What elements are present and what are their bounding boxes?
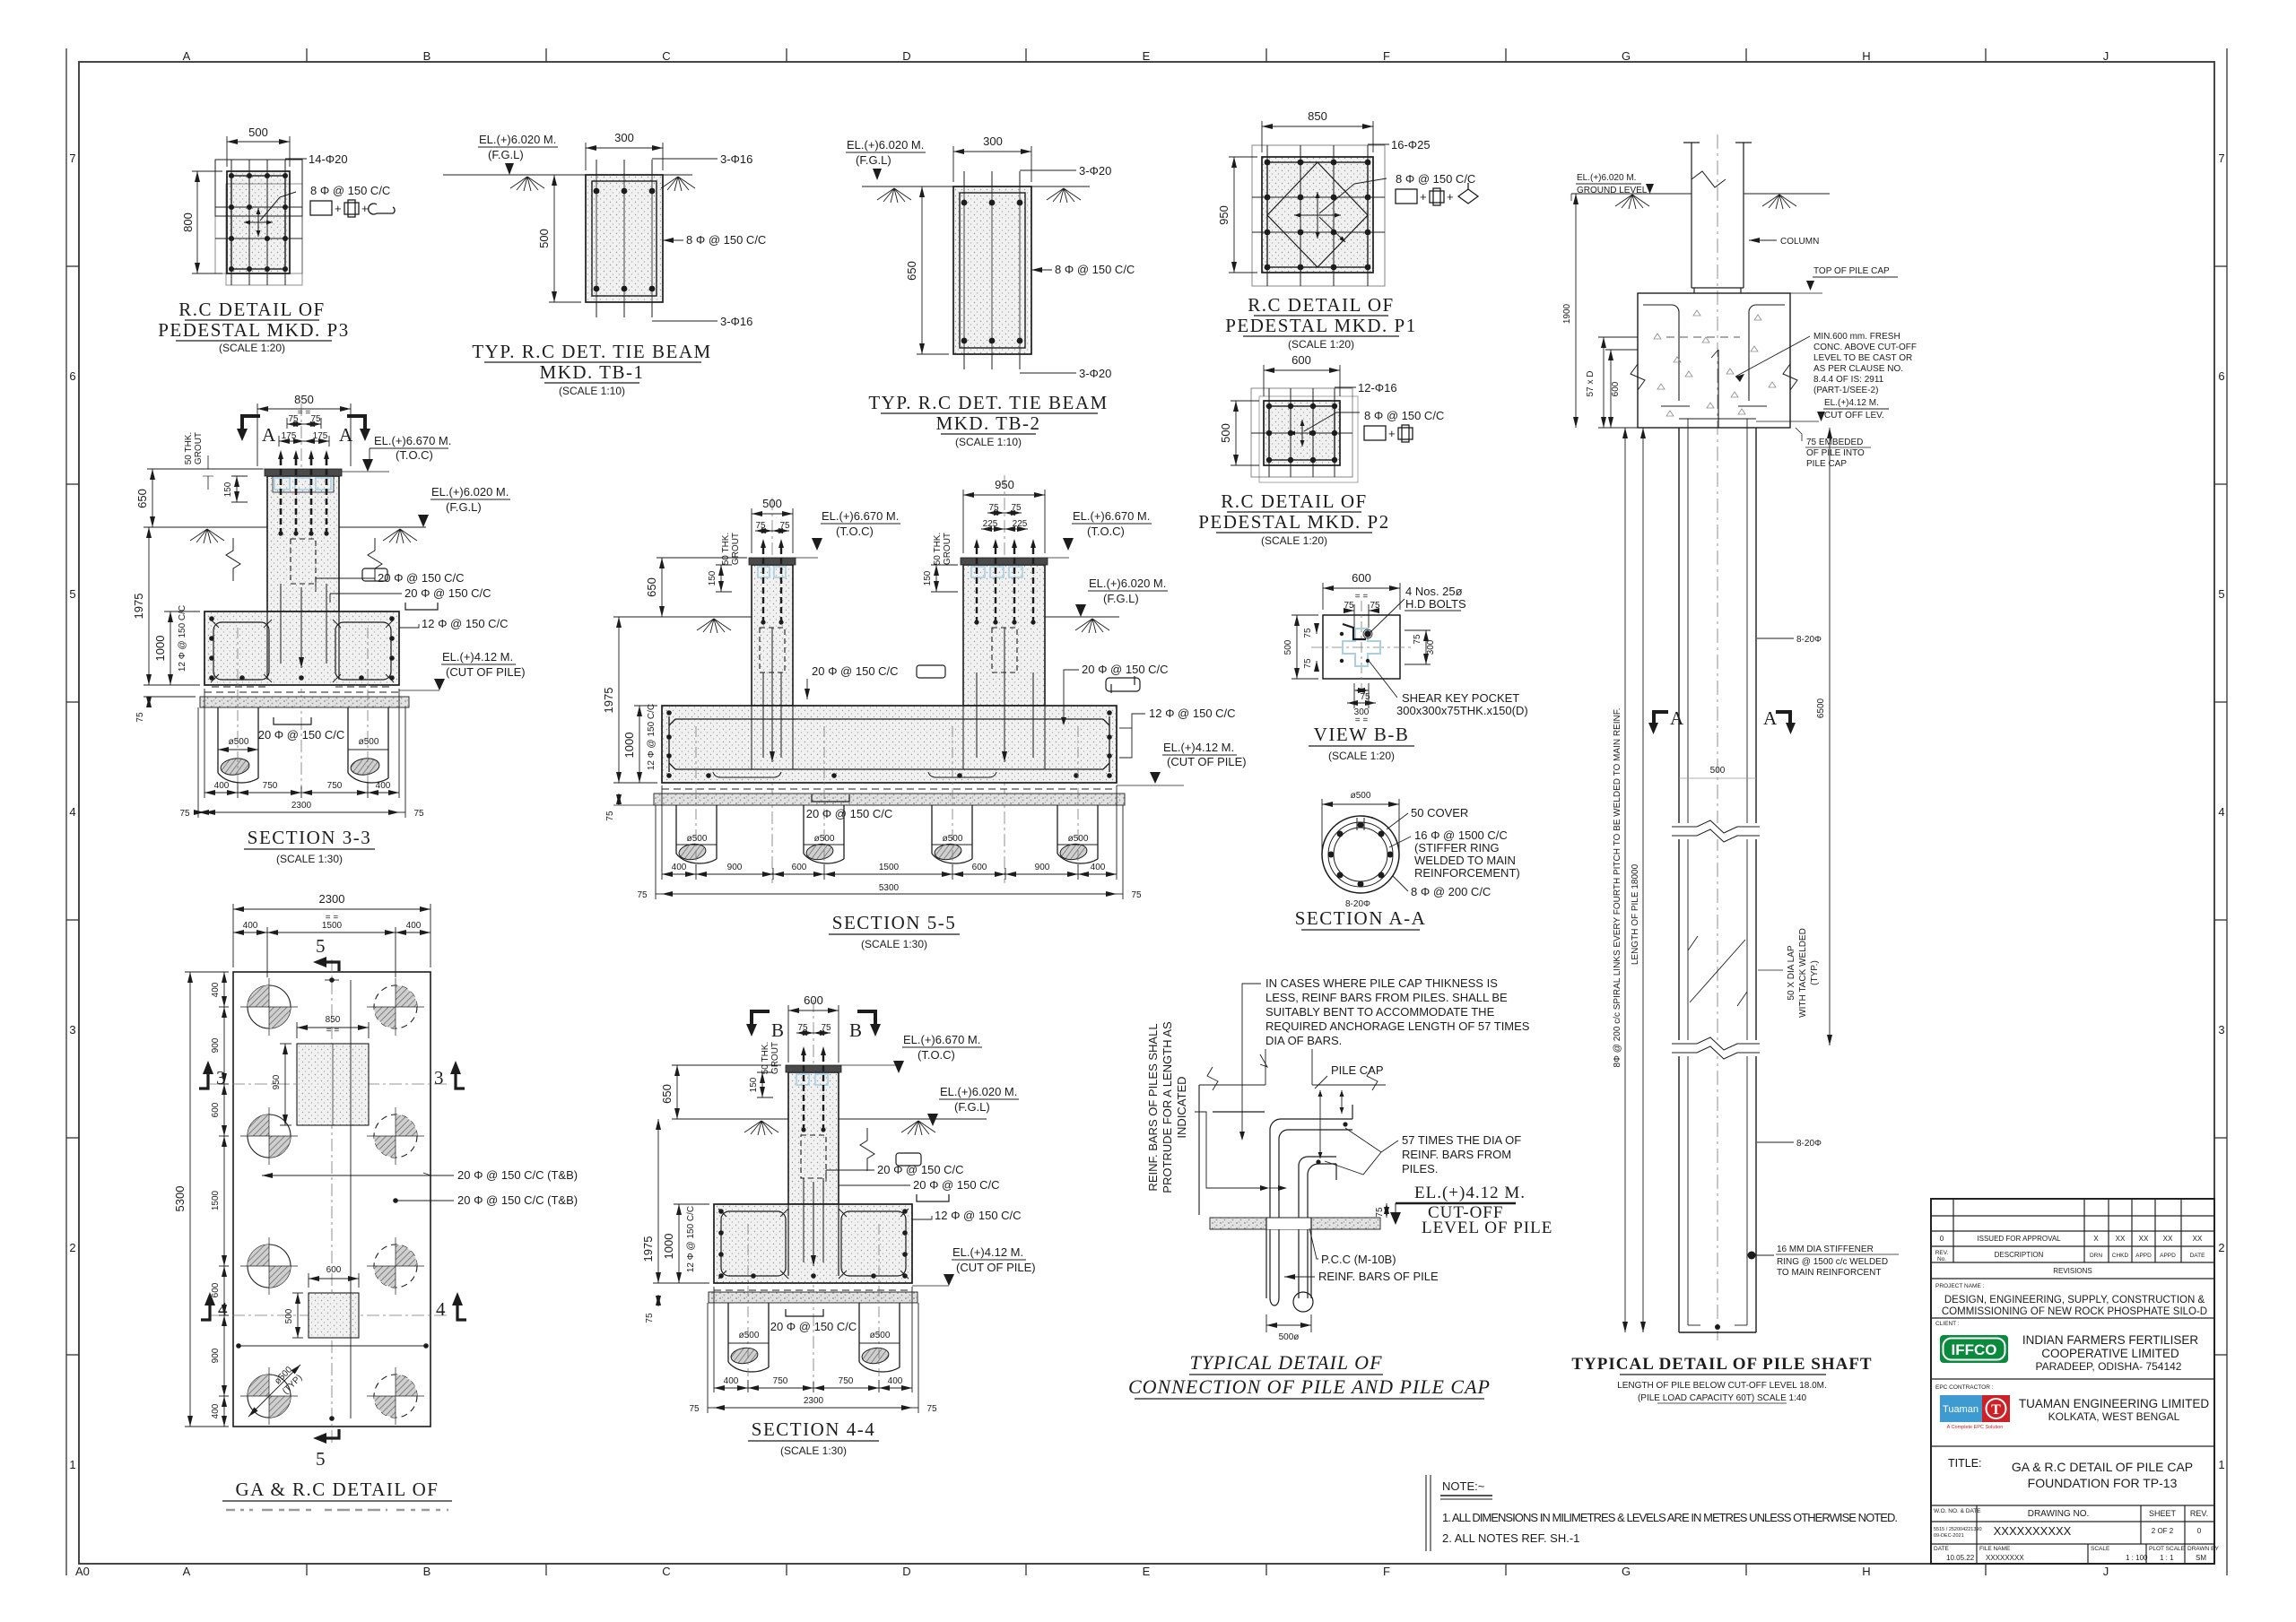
- svg-text:20 Φ @ 150 C/C: 20 Φ @ 150 C/C: [877, 1163, 964, 1176]
- svg-text:(F.G.L): (F.G.L): [856, 153, 891, 167]
- svg-text:TOP OF PILE CAP: TOP OF PILE CAP: [1813, 266, 1890, 276]
- 57xD / 600 dims: [1598, 337, 1638, 428]
- svg-text:150: 150: [923, 570, 933, 585]
- svg-text:2300: 2300: [319, 892, 345, 906]
- svg-text:XX: XX: [2116, 1235, 2126, 1243]
- TB-1 concrete section: [586, 175, 663, 302]
- P3 dim 500: [227, 136, 290, 167]
- svg-text:75: 75: [988, 503, 999, 513]
- svg-text:50 THK.: 50 THK.: [184, 432, 194, 465]
- svg-text:12 Φ @ 150 C/C: 12 Φ @ 150 C/C: [935, 1209, 1022, 1222]
- svg-text:8 Φ @ 150 C/C: 8 Φ @ 150 C/C: [686, 233, 766, 247]
- pedestal P3 concrete section: [215, 160, 302, 285]
- svg-text:1 : 100: 1 : 100: [2126, 1554, 2148, 1562]
- svg-text:75: 75: [689, 1404, 700, 1414]
- svg-text:150: 150: [749, 1077, 759, 1092]
- breaks on cap: [1207, 1067, 1218, 1090]
- TB-2 concrete section: [953, 186, 1031, 354]
- TB-1 dim 300: [586, 143, 663, 170]
- pedestal P1 in plan: [297, 1044, 369, 1125]
- svg-text:E: E: [1143, 49, 1151, 63]
- svg-text:950: 950: [1217, 205, 1231, 225]
- svg-text:EL.(+)4.12 M.: EL.(+)4.12 M.: [1824, 398, 1879, 408]
- svg-text:2300: 2300: [291, 801, 312, 811]
- left rotated dims: [1624, 428, 1626, 1332]
- svg-text:20 Φ @ 150 C/C: 20 Φ @ 150 C/C: [770, 1320, 857, 1333]
- P1 dim 850: [1262, 121, 1373, 152]
- svg-text:XXXXXXXXXX: XXXXXXXXXX: [1994, 1524, 2072, 1538]
- svg-text:D: D: [902, 49, 910, 63]
- svg-text:75: 75: [1131, 890, 1142, 900]
- svg-text:COOPERATIVE LIMITED: COOPERATIVE LIMITED: [2041, 1347, 2179, 1360]
- svg-text:(PART-1/SEE-2): (PART-1/SEE-2): [1813, 386, 1878, 395]
- svg-text:(F.G.L): (F.G.L): [446, 500, 482, 514]
- svg-text:XXXXXXXX: XXXXXXXX: [1986, 1554, 2024, 1562]
- svg-text:3: 3: [434, 1067, 445, 1089]
- left ped dims: [752, 508, 793, 553]
- P2 dims in plan: [292, 1273, 359, 1338]
- svg-text:E: E: [1143, 1565, 1151, 1578]
- svg-text:20 Φ @ 150 C/C: 20 Φ @ 150 C/C: [404, 586, 491, 600]
- svg-text:EL.(+)6.020 M.: EL.(+)6.020 M.: [847, 138, 924, 152]
- svg-text:LENGTH OF PILE BELOW CUT-O: LENGTH OF PILE BELOW CUT-OFF LEVEL 18.0M…: [1617, 1381, 1827, 1391]
- grout pad: [265, 469, 342, 476]
- svg-text:EL.(+)6.670 M.: EL.(+)6.670 M.: [1073, 509, 1150, 523]
- TB-2 rebar dots: [961, 200, 1023, 344]
- svg-text:1000: 1000: [622, 733, 636, 759]
- svg-text:MKD. TB-1: MKD. TB-1: [540, 361, 645, 383]
- note text: [1265, 976, 1530, 1047]
- svg-text:DRN: DRN: [2090, 1253, 2102, 1259]
- svg-text:REINF. BARS FROM: REINF. BARS FROM: [1402, 1148, 1511, 1161]
- HD bolts: [1340, 632, 1344, 636]
- svg-text:16 MM DIA STIFFENER: 16 MM DIA STIFFENER: [1777, 1245, 1874, 1254]
- svg-text:225: 225: [983, 519, 998, 529]
- PCC strip: [654, 794, 1125, 805]
- pile dia labels: [218, 749, 258, 750]
- svg-text:EL.(+)4.12 M.: EL.(+)4.12 M.: [1163, 741, 1234, 754]
- svg-text:+: +: [335, 202, 342, 215]
- svg-text:150: 150: [223, 481, 233, 497]
- svg-text:SM: SM: [2196, 1554, 2206, 1562]
- svg-text:TYP. R.C DET. TIE BEAM: TYP. R.C DET. TIE BEAM: [472, 341, 711, 362]
- svg-text:800: 800: [181, 213, 195, 232]
- P2 dim 500: [1231, 401, 1259, 465]
- svg-text:12 Φ @ 150 C/C: 12 Φ @ 150 C/C: [1149, 707, 1236, 720]
- svg-text:5: 5: [69, 587, 75, 601]
- centerline: [300, 403, 302, 789]
- bottom 20dia label: [274, 717, 311, 724]
- svg-text:75: 75: [926, 1404, 937, 1414]
- svg-text:900: 900: [211, 1037, 221, 1053]
- svg-text:500: 500: [284, 1308, 294, 1323]
- svg-text:12 Φ @ 150 C/C: 12 Φ @ 150 C/C: [647, 704, 657, 770]
- 57x dim arrows: [1320, 1090, 1342, 1158]
- svg-text:X: X: [2093, 1235, 2099, 1243]
- svg-text:1900: 1900: [1562, 303, 1572, 324]
- svg-text:LEVEL TO BE CAST OR: LEVEL TO BE CAST OR: [1813, 353, 1912, 363]
- svg-text:IFFCO: IFFCO: [1952, 1341, 1997, 1358]
- svg-text:1: 1: [2218, 1458, 2224, 1471]
- svg-text:20 Φ @ 150 C/C: 20 Φ @ 150 C/C: [1082, 663, 1169, 676]
- svg-text:20 Φ @ 150 C/C: 20 Φ @ 150 C/C: [812, 664, 899, 678]
- pile dashed tops: [204, 691, 399, 693]
- svg-text:75: 75: [779, 521, 790, 531]
- break symbols: [226, 538, 240, 581]
- svg-text:REINFORCEMENT): REINFORCEMENT): [1414, 866, 1520, 880]
- section marker 5 bottom: [326, 1429, 339, 1438]
- svg-text:CONNECTION OF PILE AND PIL: CONNECTION OF PILE AND PILE CAP: [1128, 1375, 1491, 1398]
- ground line: [143, 527, 426, 543]
- left dims: [613, 617, 668, 805]
- svg-text:400: 400: [406, 921, 422, 931]
- break: [860, 1128, 874, 1171]
- svg-text:75: 75: [637, 890, 648, 900]
- svg-text:CUT OFF LEV.: CUT OFF LEV.: [1824, 411, 1884, 421]
- svg-text:DESIGN, ENGINEERING, SUPPLY, C: DESIGN, ENGINEERING, SUPPLY, CONSTRUCTIO…: [1944, 1295, 2205, 1305]
- svg-text:(F.G.L): (F.G.L): [488, 148, 524, 161]
- svg-text:REINF. BARS OF PILES SHALL: REINF. BARS OF PILES SHALL: [1146, 1023, 1160, 1191]
- svg-text:12-Φ16: 12-Φ16: [1358, 381, 1397, 395]
- svg-text:D: D: [902, 1565, 910, 1578]
- svg-text:300: 300: [1426, 639, 1436, 655]
- pedestal P2 in plan: [309, 1293, 359, 1338]
- svg-text:PILE CAP: PILE CAP: [1806, 459, 1847, 469]
- 500 dia dim: [1266, 1314, 1311, 1332]
- svg-text:EL.(+)6.020 M.: EL.(+)6.020 M.: [431, 485, 509, 499]
- P1 dim 950: [1229, 157, 1257, 273]
- svg-text:TYPICAL DETAIL OF PILE SHAFT: TYPICAL DETAIL OF PILE SHAFT: [1571, 1355, 1872, 1374]
- svg-text:A: A: [183, 49, 191, 63]
- svg-text:850: 850: [326, 1015, 341, 1025]
- svg-text:COLUMN: COLUMN: [1780, 237, 1819, 247]
- svg-text:12 Φ @ 150 C/C: 12 Φ @ 150 C/C: [422, 617, 509, 630]
- plan outline: [233, 972, 430, 1427]
- centerlines: [210, 959, 448, 1444]
- svg-text:400: 400: [211, 982, 221, 997]
- svg-text:400: 400: [243, 921, 258, 931]
- leader from rotated note: [1195, 1112, 1260, 1188]
- svg-text:300x300x75THK.x150(D): 300x300x75THK.x150(D): [1396, 704, 1528, 717]
- svg-text:EL.(+)6.670 M.: EL.(+)6.670 M.: [374, 434, 451, 447]
- dia500 typ label: [248, 1365, 300, 1417]
- 1900 dim: [1575, 194, 1577, 428]
- svg-text:1 : 1: 1 : 1: [2160, 1554, 2174, 1562]
- svg-text:PEDESTAL MKD. P3: PEDESTAL MKD. P3: [158, 319, 349, 341]
- svg-text:1500: 1500: [211, 1190, 221, 1210]
- bolts into cap: [763, 628, 1033, 762]
- svg-text:20 Φ @ 150 C/C (T&B): 20 Φ @ 150 C/C (T&B): [457, 1168, 578, 1182]
- svg-text:EL.(+)4.12 M.: EL.(+)4.12 M.: [442, 650, 513, 664]
- svg-text:DRAWING NO.: DRAWING NO.: [2028, 1509, 2090, 1519]
- TB-2 labels: [1020, 169, 1076, 171]
- svg-text:OF PILE INTO: OF PILE INTO: [1806, 448, 1865, 458]
- svg-text:7: 7: [69, 152, 75, 165]
- svg-text:5300: 5300: [173, 1186, 187, 1212]
- svg-text:A: A: [339, 424, 354, 446]
- P2 rebar dots: [1266, 403, 1337, 463]
- ground lines: [668, 617, 1119, 633]
- top dims: [233, 904, 430, 977]
- svg-text:500: 500: [1283, 639, 1293, 655]
- svg-text:175: 175: [313, 431, 328, 441]
- pile bars with bends: [1213, 1105, 1352, 1298]
- svg-text:J: J: [2103, 1565, 2109, 1578]
- svg-text:A: A: [1763, 707, 1779, 729]
- cap U-bars: [1643, 305, 1785, 428]
- B markers: [746, 1010, 881, 1041]
- svg-text:CLIENT :: CLIENT :: [1935, 1321, 1960, 1327]
- svg-text:8 Φ @ 150 C/C: 8 Φ @ 150 C/C: [1396, 172, 1475, 186]
- svg-text:4 Nos. 25ø: 4 Nos. 25ø: [1405, 585, 1463, 598]
- centerline: [813, 1000, 814, 1385]
- leader labels right: [262, 1175, 454, 1176]
- svg-text:SUITABLY BENT TO ACCOMMODAT: SUITABLY BENT TO ACCOMMODATE THE: [1265, 1005, 1495, 1019]
- svg-text:G: G: [1622, 49, 1631, 63]
- svg-text:B: B: [849, 1019, 864, 1041]
- svg-text:8Φ @ 200 c/c SPIRAL LINKS: 8Φ @ 200 c/c SPIRAL LINKS EVERY FOURTH P…: [1613, 707, 1622, 1067]
- svg-text:600: 600: [211, 1102, 221, 1117]
- centerline: [1717, 134, 1718, 1340]
- TB-2 ground line: [862, 186, 1090, 203]
- svg-text:750: 750: [263, 781, 278, 791]
- PCC: [709, 1292, 918, 1303]
- svg-text:75: 75: [1011, 503, 1022, 513]
- svg-text:(F.G.L): (F.G.L): [1103, 592, 1139, 605]
- svg-text:50 THK.: 50 THK.: [721, 533, 731, 566]
- svg-text:+: +: [361, 202, 369, 215]
- svg-text:(SCALE 1:20): (SCALE 1:20): [219, 342, 285, 354]
- svg-text:ø500: ø500: [943, 834, 963, 844]
- pile cap: [204, 612, 399, 685]
- pile dashed tops: [662, 788, 1117, 790]
- svg-text:1. ALL DIMENSIONS IN MILIMETRE: 1. ALL DIMENSIONS IN MILIMETRES & LEVELS…: [1442, 1511, 1898, 1524]
- fresh conc dashed line: [1666, 336, 1740, 338]
- svg-text:PEDESTAL MKD. P1: PEDESTAL MKD. P1: [1225, 315, 1416, 336]
- svg-text:(SCALE 1:30): (SCALE 1:30): [861, 938, 927, 950]
- bottom 20dia label: [812, 794, 849, 802]
- svg-text:75: 75: [1344, 601, 1354, 611]
- svg-text:MKD. TB-2: MKD. TB-2: [936, 412, 1041, 434]
- svg-text:50 X DIA LAP: 50 X DIA LAP: [1787, 945, 1796, 1000]
- svg-text:RING @ 1500 c/c WELDED: RING @ 1500 c/c WELDED: [1777, 1257, 1888, 1267]
- 6500 dim: [1829, 428, 1831, 1045]
- right pedestal: [963, 565, 1045, 706]
- section marker 5 top: [326, 962, 339, 971]
- svg-text:1: 1: [69, 1458, 75, 1471]
- svg-text:PLOT SCALE: PLOT SCALE: [2149, 1546, 2186, 1552]
- svg-text:+: +: [1388, 427, 1396, 440]
- svg-text:G: G: [1622, 1565, 1631, 1578]
- svg-text:400: 400: [214, 781, 230, 791]
- svg-text:3-Φ20: 3-Φ20: [1079, 367, 1111, 380]
- svg-text:75: 75: [1303, 658, 1313, 669]
- svg-text:50 COVER: 50 COVER: [1411, 806, 1468, 820]
- svg-text:2: 2: [69, 1241, 75, 1254]
- column: [1683, 143, 1752, 293]
- stirrup legend small: [362, 568, 387, 581]
- bottom 20dia: [786, 1309, 823, 1316]
- svg-text:600: 600: [1611, 381, 1621, 396]
- svg-text:400: 400: [888, 1376, 903, 1386]
- svg-text:650: 650: [905, 261, 918, 281]
- svg-text:12 Φ @ 150 C/C: 12 Φ @ 150 C/C: [686, 1206, 696, 1272]
- svg-text:TUAMAN ENGINEERING LIMITED: TUAMAN ENGINEERING LIMITED: [2019, 1397, 2210, 1410]
- inner bar lines with dots: [239, 1345, 426, 1347]
- svg-text:1975: 1975: [641, 1236, 655, 1262]
- svg-text:75: 75: [179, 809, 190, 819]
- svg-text:75: 75: [797, 1023, 808, 1033]
- svg-text:DESCRIPTION: DESCRIPTION: [1995, 1251, 2044, 1259]
- svg-text:600: 600: [792, 863, 807, 872]
- svg-text:14-Φ20: 14-Φ20: [309, 152, 348, 166]
- bolts going into cap: [281, 584, 326, 668]
- svg-text:2 OF 2: 2 OF 2: [2152, 1527, 2174, 1535]
- svg-text:GROUT: GROUT: [770, 1042, 780, 1074]
- svg-text:COMMISSIONING OF NEW ROCK PHOS: COMMISSIONING OF NEW ROCK PHOSPHATE SILO…: [1942, 1306, 2207, 1317]
- svg-text:1500: 1500: [879, 863, 900, 872]
- bottom dim chains: [656, 785, 1123, 899]
- P3 label 14-dia20: [285, 158, 307, 160]
- svg-text:R.C DETAIL OF: R.C DETAIL OF: [1221, 490, 1367, 512]
- svg-text:FILE NAME: FILE NAME: [1979, 1546, 2011, 1552]
- svg-text:AS PER CLAUSE NO.: AS PER CLAUSE NO.: [1813, 364, 1903, 374]
- svg-text:8 Φ @ 150 C/C: 8 Φ @ 150 C/C: [310, 184, 390, 197]
- svg-text:3: 3: [2218, 1023, 2224, 1037]
- P1 dims in plan: [280, 1022, 369, 1125]
- svg-text:VIEW B-B: VIEW B-B: [1314, 724, 1410, 745]
- svg-text:GA & R.C DETAIL OF PILE CAP: GA & R.C DETAIL OF PILE CAP: [2012, 1460, 2193, 1474]
- svg-text:(SCALE 1:20): (SCALE 1:20): [1328, 750, 1395, 762]
- svg-text:LENGTH OF PILE 18000: LENGTH OF PILE 18000: [1631, 863, 1640, 965]
- svg-text:R.C DETAIL OF: R.C DETAIL OF: [1248, 294, 1394, 316]
- svg-text:ø500: ø500: [814, 834, 835, 844]
- svg-text:4: 4: [2218, 805, 2224, 819]
- svg-text:(T.O.C): (T.O.C): [1087, 525, 1125, 538]
- column ticks top/bottom: [307, 48, 1986, 1575]
- svg-text:75: 75: [1370, 601, 1380, 611]
- svg-text:A0: A0: [75, 1565, 90, 1578]
- piles: [728, 1303, 900, 1372]
- pile section circles: [1322, 816, 1399, 893]
- svg-text:900: 900: [1035, 863, 1050, 872]
- pedestal: [788, 1072, 839, 1204]
- A markers: [1648, 710, 1796, 734]
- svg-text:400: 400: [672, 863, 687, 872]
- TB-1 ground line: [443, 175, 695, 191]
- svg-text:EL.(+)6.020 M.: EL.(+)6.020 M.: [479, 133, 556, 146]
- svg-text:20 Φ @ 150 C/C: 20 Φ @ 150 C/C: [258, 728, 345, 742]
- svg-text:5: 5: [2218, 587, 2224, 601]
- svg-text:EL.(+)6.020 M.: EL.(+)6.020 M.: [1089, 577, 1166, 590]
- left dims: [653, 1119, 709, 1306]
- dims 650/150 left: [147, 469, 263, 527]
- svg-text:75: 75: [310, 414, 321, 424]
- svg-text:TYP. R.C DET. TIE BEAM: TYP. R.C DET. TIE BEAM: [868, 392, 1108, 413]
- svg-text:GROUT: GROUT: [731, 533, 741, 565]
- TB-1 dim 500: [549, 175, 581, 302]
- svg-text:8 Φ @ 150 C/C: 8 Φ @ 150 C/C: [1055, 263, 1135, 276]
- svg-text:8-20Φ: 8-20Φ: [1796, 635, 1822, 645]
- section marker 3 left: [199, 1074, 208, 1089]
- svg-text:+: +: [1420, 190, 1427, 204]
- svg-text:75: 75: [1360, 692, 1370, 702]
- svg-text:= =: = =: [1355, 592, 1369, 602]
- svg-text:3-Φ16: 3-Φ16: [720, 315, 752, 328]
- svg-text:75: 75: [645, 1313, 655, 1323]
- svg-text:175: 175: [282, 431, 297, 441]
- svg-text:(STIFFER RING: (STIFFER RING: [1414, 841, 1500, 854]
- shear key cross: [1343, 629, 1380, 666]
- svg-text:400: 400: [211, 1403, 221, 1418]
- svg-text:REV.: REV.: [2190, 1509, 2208, 1518]
- svg-text:INDIAN FARMERS FERTILISER: INDIAN FARMERS FERTILISER: [2022, 1333, 2199, 1347]
- svg-text:(T.O.C): (T.O.C): [918, 1048, 955, 1062]
- left pedestal: [752, 565, 793, 706]
- NOTE: [1426, 1475, 1898, 1551]
- 75 dim: [1386, 1203, 1387, 1218]
- svg-text:PILES.: PILES.: [1402, 1162, 1438, 1175]
- ground line: [735, 1119, 987, 1135]
- svg-text:PROTRUDE FOR A LENGTH AS: PROTRUDE FOR A LENGTH AS: [1161, 1021, 1174, 1193]
- svg-text:(CUT OF PILE): (CUT OF PILE): [956, 1261, 1036, 1274]
- svg-text:5300: 5300: [879, 883, 900, 893]
- svg-text:(CUT OF PILE): (CUT OF PILE): [1167, 755, 1247, 768]
- svg-text:850: 850: [1308, 109, 1327, 123]
- svg-text:REVISIONS: REVISIONS: [2053, 1267, 2092, 1275]
- svg-text:XX: XX: [2163, 1235, 2173, 1243]
- svg-text:SECTION 5-5: SECTION 5-5: [832, 912, 956, 933]
- ground line: [1571, 194, 1830, 209]
- svg-text:CONC. ABOVE CUT-OFF: CONC. ABOVE CUT-OFF: [1813, 343, 1917, 352]
- svg-text:TITLE:: TITLE:: [1948, 1457, 1982, 1470]
- P2 center cross: [1289, 412, 1360, 447]
- svg-text:75: 75: [755, 521, 766, 531]
- concrete marks: [1654, 310, 1776, 416]
- svg-text:650: 650: [645, 577, 658, 597]
- svg-text:WELDED TO MAIN: WELDED TO MAIN: [1414, 854, 1516, 867]
- svg-text:750: 750: [327, 781, 343, 791]
- svg-text:600: 600: [211, 1282, 221, 1297]
- 16mm stiffener: [1748, 1252, 1756, 1260]
- svg-text:DATE: DATE: [1934, 1546, 1950, 1552]
- svg-text:PROJECT NAME :: PROJECT NAME :: [1935, 1283, 1985, 1289]
- svg-text:16-Φ25: 16-Φ25: [1391, 138, 1431, 152]
- right labels: [826, 1170, 932, 1219]
- svg-text:50 THK.: 50 THK.: [933, 533, 943, 566]
- section A markers: [237, 414, 370, 446]
- svg-text:(CUT OF PILE): (CUT OF PILE): [446, 665, 526, 679]
- breaks in cap: [1631, 364, 1645, 390]
- svg-text:A: A: [183, 1565, 191, 1578]
- right ped dims: [963, 490, 1045, 553]
- P3 dim 800: [192, 171, 222, 273]
- svg-text:DIA OF BARS.: DIA OF BARS.: [1265, 1034, 1342, 1047]
- pedestal: [267, 476, 339, 612]
- pile cap: [1638, 293, 1790, 428]
- svg-text:1000: 1000: [153, 636, 167, 662]
- svg-text:A: A: [1670, 707, 1685, 729]
- dim: [1322, 799, 1399, 850]
- piles: [218, 707, 388, 783]
- svg-text:57 TIMES THE DIA OF: 57 TIMES THE DIA OF: [1402, 1133, 1521, 1147]
- pile cap: [662, 706, 1117, 783]
- svg-text:8-20Φ: 8-20Φ: [1796, 1139, 1822, 1149]
- svg-text:= =: = =: [326, 913, 339, 923]
- svg-text:Tuaman: Tuaman: [1943, 1404, 1979, 1415]
- svg-text:900: 900: [211, 1348, 221, 1363]
- svg-text:4: 4: [218, 1298, 229, 1320]
